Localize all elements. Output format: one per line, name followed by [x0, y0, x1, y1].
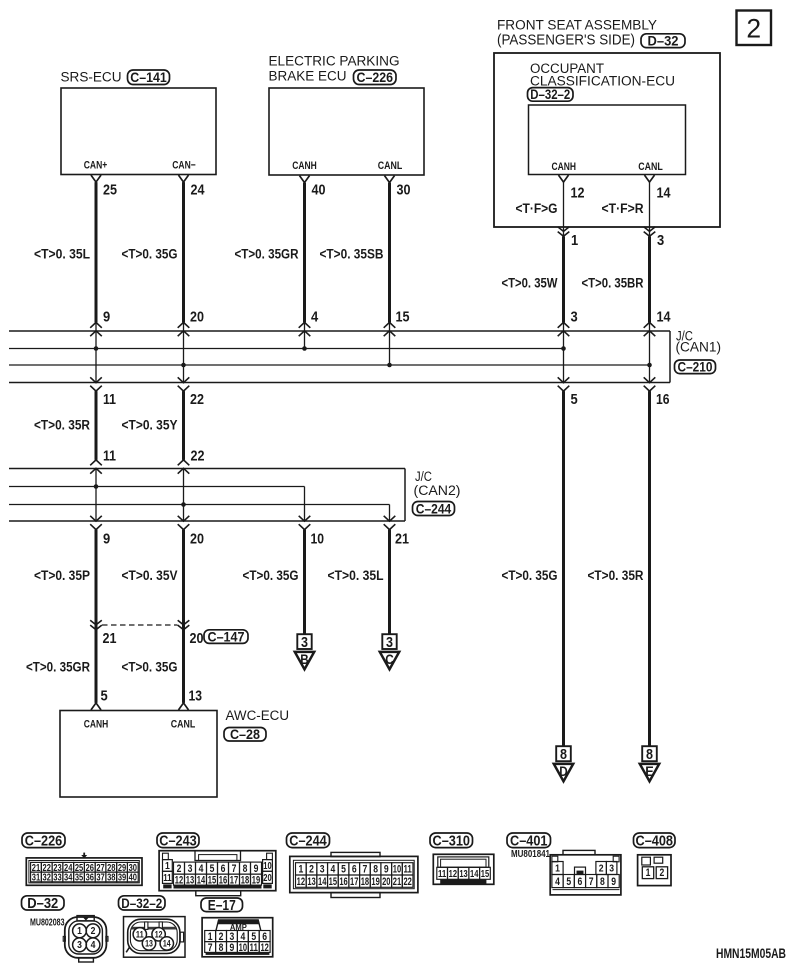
- svg-text:C–243: C–243: [159, 833, 197, 849]
- svg-text:17: 17: [230, 874, 238, 886]
- svg-text:9: 9: [230, 942, 235, 954]
- svg-text:16: 16: [656, 391, 670, 408]
- ECU box AWC-ECU: [60, 708, 289, 797]
- svg-text:18: 18: [241, 874, 249, 886]
- junction CAN2 corner wire pin 21: [384, 505, 409, 548]
- svg-text:12: 12: [571, 184, 585, 201]
- junction CAN1 pin 20/22 wire: [178, 308, 204, 408]
- junction CAN1 pin 3/5 wire: [558, 308, 578, 408]
- svg-text:C–210: C–210: [678, 360, 713, 375]
- svg-text:C–244: C–244: [416, 501, 452, 516]
- svg-text:21: 21: [395, 530, 409, 547]
- svg-text:20: 20: [190, 308, 204, 325]
- svg-text:<T>0. 35G: <T>0. 35G: [243, 568, 299, 584]
- svg-text:38: 38: [107, 873, 116, 884]
- svg-text:2: 2: [91, 926, 96, 937]
- document code HMN15M05AB: [716, 946, 786, 961]
- wire SRS CAN+ pin 25: [34, 175, 117, 322]
- wire SRS CAN- pin 24: [122, 175, 206, 322]
- svg-text:13: 13: [145, 939, 153, 949]
- connector pill D-32-2 bottom: [119, 895, 166, 911]
- svg-text:C–310: C–310: [433, 833, 471, 849]
- svg-text:15: 15: [329, 876, 337, 888]
- connector pill C-244 bottom: [287, 833, 330, 849]
- svg-text:HMN15M05AB: HMN15M05AB: [716, 946, 786, 961]
- svg-text:AWC-ECU: AWC-ECU: [226, 708, 290, 723]
- svg-text:BRAKE ECU: BRAKE ECU: [269, 68, 347, 83]
- svg-text:<T>0. 35V: <T>0. 35V: [122, 568, 178, 584]
- svg-text:1: 1: [646, 867, 651, 879]
- svg-text:4: 4: [311, 308, 319, 325]
- svg-text:<T>0. 35G: <T>0. 35G: [122, 247, 178, 263]
- svg-text:J/C: J/C: [415, 469, 432, 484]
- wire terminal C branch: [328, 530, 390, 634]
- svg-text:1: 1: [555, 864, 560, 875]
- svg-text:40: 40: [312, 182, 326, 199]
- svg-text:7: 7: [232, 863, 237, 875]
- svg-text:MU801841: MU801841: [511, 848, 550, 860]
- svg-text:9: 9: [103, 530, 110, 547]
- svg-text:D–32: D–32: [648, 33, 679, 49]
- svg-text:CAN−: CAN−: [172, 160, 196, 172]
- svg-text:C: C: [385, 651, 394, 667]
- svg-text:25: 25: [103, 182, 117, 199]
- svg-text:8: 8: [243, 863, 248, 875]
- svg-text:<T>0. 35P: <T>0. 35P: [34, 568, 90, 584]
- svg-text:CANL: CANL: [638, 161, 663, 173]
- svg-text:<T>0. 35BR: <T>0. 35BR: [582, 275, 644, 291]
- svg-text:MU802083: MU802083: [30, 917, 65, 929]
- svg-text:8: 8: [219, 942, 224, 954]
- svg-text:1: 1: [298, 864, 303, 876]
- svg-text:8: 8: [373, 864, 378, 876]
- svg-text:16: 16: [219, 874, 227, 886]
- svg-text:15: 15: [481, 869, 490, 880]
- connector pill C-244 mid: [413, 501, 455, 516]
- svg-text:CANL: CANL: [171, 718, 196, 730]
- ECU box SRS-ECU: [61, 70, 217, 175]
- connector drawing D-32 round: [63, 916, 108, 962]
- svg-text:11: 11: [103, 391, 116, 408]
- svg-text:C–141: C–141: [130, 69, 167, 85]
- connector pill D-32 top: [641, 33, 685, 49]
- svg-text:22: 22: [191, 448, 205, 465]
- svg-text:40: 40: [129, 873, 138, 884]
- svg-text:9: 9: [103, 308, 110, 325]
- wire OCC CANH pin 12 to pin 1: [502, 175, 585, 322]
- connector pill C-210: [675, 360, 716, 375]
- svg-text:13: 13: [307, 876, 315, 888]
- connector drawing E-17 AMP: [202, 918, 273, 957]
- svg-text:19: 19: [371, 876, 379, 888]
- svg-text:C–408: C–408: [636, 833, 674, 849]
- connector pill C-310: [430, 833, 473, 849]
- wire EPB CANL pin 30: [320, 176, 411, 323]
- svg-text:10: 10: [393, 864, 401, 876]
- svg-text:33: 33: [53, 873, 62, 884]
- connector label MU801841: [511, 848, 550, 860]
- svg-text:12: 12: [297, 876, 305, 888]
- connector drawing C-226: [26, 853, 142, 886]
- svg-text:24: 24: [191, 182, 206, 199]
- svg-text:12: 12: [155, 930, 163, 940]
- inline connector C-147 dashed line: [102, 624, 178, 626]
- svg-text:3: 3: [320, 864, 325, 876]
- svg-text:CANL: CANL: [378, 160, 403, 172]
- svg-text:2: 2: [660, 867, 665, 879]
- svg-text:34: 34: [64, 873, 73, 884]
- svg-text:11: 11: [438, 869, 447, 880]
- connector pill C-226 top: [354, 69, 397, 85]
- terminal symbol 8-D: [554, 746, 573, 781]
- svg-text:FRONT SEAT ASSEMBLY: FRONT SEAT ASSEMBLY: [497, 18, 657, 33]
- svg-text:CANH: CANH: [84, 718, 109, 730]
- svg-text:<T>0. 35W: <T>0. 35W: [502, 275, 558, 291]
- svg-text:11: 11: [403, 864, 411, 876]
- wire to AWC CANH with C-147 pin 21: [26, 530, 117, 710]
- svg-text:CANH: CANH: [292, 160, 317, 172]
- junction CAN2 wire 22-20: [178, 469, 204, 548]
- svg-text:5: 5: [101, 688, 108, 705]
- svg-text:SRS-ECU: SRS-ECU: [61, 70, 122, 85]
- svg-text:31: 31: [32, 873, 41, 884]
- svg-text:C–147: C–147: [208, 629, 245, 644]
- svg-text:32: 32: [43, 873, 52, 884]
- svg-text:(CAN1): (CAN1): [676, 339, 722, 354]
- svg-text:18: 18: [361, 876, 369, 888]
- svg-text:2: 2: [599, 864, 604, 875]
- svg-text:(PASSENGER'S SIDE): (PASSENGER'S SIDE): [497, 31, 635, 48]
- svg-text:<T>0. 35G: <T>0. 35G: [122, 660, 178, 676]
- svg-text:22: 22: [190, 391, 204, 408]
- wire terminal D branch: [502, 391, 564, 746]
- page number 2 box: [737, 11, 772, 46]
- svg-text:C–226: C–226: [357, 69, 394, 85]
- junction CAN1 pin 4 stub: [299, 308, 319, 351]
- svg-text:20: 20: [190, 530, 204, 547]
- svg-text:15: 15: [396, 308, 410, 325]
- svg-text:10: 10: [311, 530, 325, 547]
- svg-text:2: 2: [177, 863, 182, 875]
- junction connector J/C CAN1 C-210 box: [9, 329, 721, 383]
- connector pill C-401: [507, 833, 551, 849]
- svg-text:CAN+: CAN+: [84, 160, 108, 172]
- svg-text:3: 3: [386, 635, 393, 651]
- svg-text:20: 20: [263, 873, 272, 884]
- svg-text:CANH: CANH: [552, 161, 577, 173]
- assembly box FRONT SEAT ASSEMBLY (PASSENGER'S SIDE): [494, 18, 720, 228]
- svg-text:ELECTRIC PARKING: ELECTRIC PARKING: [269, 54, 400, 69]
- svg-text:22: 22: [403, 876, 411, 888]
- svg-text:36: 36: [86, 873, 95, 884]
- wire CAN-Y between junctions: [122, 391, 205, 474]
- connector drawing C-401: [550, 850, 621, 894]
- connector drawing C-310: [433, 854, 494, 884]
- junction CAN2 wire 11-9: [90, 469, 110, 548]
- svg-text:21: 21: [393, 876, 401, 888]
- svg-text:<T>0. 35Y: <T>0. 35Y: [122, 418, 178, 434]
- svg-text:8: 8: [600, 876, 605, 888]
- junction CAN1 pin 14/16 wire: [644, 308, 671, 408]
- svg-text:20: 20: [190, 630, 204, 647]
- svg-text:3: 3: [188, 863, 193, 875]
- svg-text:7: 7: [363, 864, 368, 876]
- svg-text:9: 9: [611, 876, 616, 888]
- svg-text:10: 10: [263, 861, 272, 872]
- svg-text:2: 2: [309, 864, 314, 876]
- svg-text:13: 13: [186, 874, 194, 886]
- bus wire CAN2 line2: [9, 486, 305, 488]
- svg-text:39: 39: [118, 873, 127, 884]
- svg-text:14: 14: [318, 876, 326, 888]
- terminal symbol 8-E: [640, 746, 659, 781]
- ECU box ELECTRIC PARKING BRAKE ECU: [269, 54, 425, 175]
- svg-text:12: 12: [175, 874, 183, 886]
- svg-text:12: 12: [260, 942, 268, 954]
- connector pill C-226 bottom: [22, 833, 65, 849]
- svg-text:14: 14: [657, 184, 672, 201]
- svg-text:14: 14: [470, 869, 479, 880]
- bus wire CAN1 line3: [9, 364, 650, 366]
- svg-text:9: 9: [254, 863, 259, 875]
- terminal symbol 3-B: [295, 634, 314, 669]
- connector pill C-408: [634, 833, 676, 849]
- svg-text:B: B: [300, 651, 309, 667]
- svg-text:3: 3: [609, 864, 614, 875]
- bus wire CAN1 line2: [9, 348, 564, 350]
- svg-text:13: 13: [189, 688, 203, 705]
- svg-text:D–32: D–32: [27, 896, 58, 912]
- svg-text:E–17: E–17: [208, 898, 236, 914]
- connector pill D-32-2: [528, 87, 574, 102]
- svg-text:(CAN2): (CAN2): [414, 483, 461, 498]
- svg-text:3: 3: [77, 940, 82, 951]
- connector pill D-32 bottom: [22, 896, 65, 912]
- svg-text:<T>0. 35R: <T>0. 35R: [588, 568, 644, 584]
- svg-text:14: 14: [163, 939, 171, 949]
- svg-text:14: 14: [657, 308, 672, 325]
- svg-text:11: 11: [250, 942, 258, 954]
- svg-text:5: 5: [571, 391, 578, 408]
- junction CAN1 pin 9/11 wire: [90, 308, 116, 408]
- svg-text:7: 7: [589, 876, 594, 888]
- wire OCC CANL pin 14 to pin 3: [582, 175, 672, 322]
- connector pill C-147: [204, 629, 248, 644]
- svg-text:12: 12: [449, 869, 458, 880]
- connector pill C-141: [128, 69, 170, 85]
- svg-text:15: 15: [208, 874, 216, 886]
- svg-text:<T>0. 35L: <T>0. 35L: [328, 568, 384, 584]
- svg-text:<T·F>G: <T·F>G: [516, 201, 558, 217]
- svg-text:D–32–2: D–32–2: [530, 87, 570, 102]
- svg-text:<T>0. 35R: <T>0. 35R: [34, 418, 90, 434]
- connector drawing D-32-2: [124, 917, 186, 958]
- connector pill C-243: [157, 833, 199, 849]
- svg-text:16: 16: [339, 876, 347, 888]
- connector drawing C-408: [638, 855, 671, 886]
- svg-text:6: 6: [578, 876, 583, 888]
- svg-text:11: 11: [163, 873, 172, 884]
- svg-text:9: 9: [384, 864, 389, 876]
- terminal symbol 3-C: [380, 634, 399, 669]
- svg-text:6: 6: [221, 863, 226, 875]
- connector pill C-28: [224, 727, 266, 742]
- wire terminal E branch: [588, 391, 650, 746]
- svg-text:21: 21: [103, 630, 117, 647]
- svg-text:<T>0. 35G: <T>0. 35G: [502, 568, 558, 584]
- wire CAN-R between junctions: [34, 391, 116, 474]
- svg-text:5: 5: [566, 876, 571, 888]
- svg-text:<T>0. 35L: <T>0. 35L: [34, 247, 90, 263]
- svg-text:8: 8: [560, 747, 567, 763]
- svg-text:4: 4: [199, 863, 204, 875]
- junction CAN2 corner wire pin 10: [299, 487, 324, 548]
- svg-text:20: 20: [382, 876, 390, 888]
- svg-text:4: 4: [330, 864, 335, 876]
- svg-text:4: 4: [555, 876, 560, 888]
- wire EPB CANH pin 40: [235, 176, 326, 323]
- junction connector J/C CAN2 C-244 box: [9, 469, 461, 522]
- ECU box OCCUPANT CLASSIFICATION-ECU: [529, 61, 686, 175]
- svg-text:3: 3: [571, 308, 578, 325]
- svg-text:4: 4: [91, 940, 96, 951]
- svg-text:C–226: C–226: [25, 833, 63, 849]
- svg-text:1: 1: [571, 232, 578, 249]
- svg-text:E: E: [645, 763, 654, 779]
- svg-text:<T>0. 35GR: <T>0. 35GR: [26, 660, 90, 676]
- svg-text:8: 8: [646, 747, 653, 763]
- wire terminal B branch: [243, 530, 305, 634]
- svg-text:5: 5: [210, 863, 215, 875]
- svg-text:14: 14: [197, 874, 205, 886]
- connector pill E-17: [201, 898, 243, 914]
- connector drawing C-243: [159, 851, 276, 896]
- svg-text:13: 13: [459, 869, 468, 880]
- connector drawing C-244: [290, 852, 418, 897]
- svg-text:<T>0. 35SB: <T>0. 35SB: [320, 247, 384, 263]
- connector label MU802083: [30, 917, 65, 929]
- svg-text:C–28: C–28: [230, 727, 260, 742]
- svg-text:6: 6: [352, 864, 357, 876]
- svg-text:37: 37: [96, 873, 105, 884]
- svg-text:3: 3: [301, 635, 308, 651]
- wire to AWC CANL with C-147 pin 20: [122, 530, 204, 710]
- svg-text:2: 2: [746, 14, 761, 44]
- svg-text:11: 11: [103, 448, 116, 465]
- svg-text:11: 11: [136, 930, 144, 940]
- svg-text:D–32–2: D–32–2: [121, 895, 162, 911]
- svg-text:<T>0. 35GR: <T>0. 35GR: [235, 247, 299, 263]
- junction CAN1 pin 15 stub: [384, 308, 410, 367]
- bus wire CAN2 line3: [9, 504, 390, 506]
- svg-text:30: 30: [397, 182, 411, 199]
- svg-text:10: 10: [239, 942, 247, 954]
- svg-text:<T·F>R: <T·F>R: [602, 201, 644, 217]
- svg-text:1: 1: [165, 861, 170, 872]
- svg-text:5: 5: [341, 864, 346, 876]
- svg-text:19: 19: [252, 874, 260, 886]
- svg-text:CLASSIFICATION-ECU: CLASSIFICATION-ECU: [530, 73, 675, 88]
- svg-text:1: 1: [77, 926, 82, 937]
- svg-text:7: 7: [208, 942, 213, 954]
- svg-text:35: 35: [75, 873, 84, 884]
- svg-text:D: D: [559, 763, 568, 779]
- svg-text:17: 17: [350, 876, 358, 888]
- svg-text:3: 3: [657, 232, 664, 249]
- svg-text:C–244: C–244: [289, 833, 327, 849]
